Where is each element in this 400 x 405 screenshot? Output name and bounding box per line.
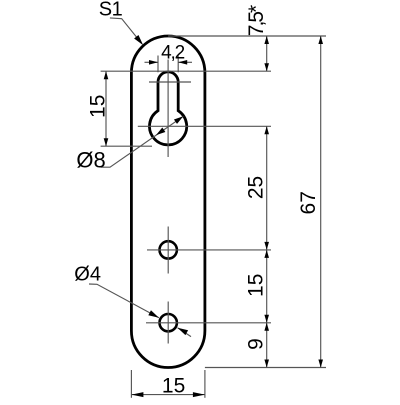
middle hole vertical centerline (167, 227, 169, 274)
arrow 4,2 left (149, 60, 158, 65)
ext line slot top (101, 70, 271, 72)
svg-text:9: 9 (245, 338, 268, 350)
hole O4 middle (160, 241, 177, 258)
arrow 25 bottom (264, 242, 269, 250)
arrow 67 top (318, 36, 323, 44)
plate outline (131, 36, 205, 368)
svg-text:S1: S1 (99, 0, 123, 20)
arrow O4 upper (148, 310, 159, 317)
dim 4,2 right tail (178, 61, 192, 63)
arrow 15L top (104, 71, 109, 79)
svg-text:15: 15 (86, 95, 109, 118)
leader S1 (110, 18, 141, 43)
leader O4 lower tail (178, 328, 192, 337)
ext line plate top (168, 35, 326, 37)
bottom hole horizontal centerline / ext (146, 322, 271, 324)
leader O8 (101, 116, 184, 167)
arrow 15L bottom (104, 138, 109, 146)
dim 4,2 left tail (145, 61, 159, 63)
dim line 7,5 (266, 36, 268, 71)
dim line 25 (266, 126, 268, 250)
arrow O8 upper (174, 116, 183, 124)
arrow 7,5 bottom (264, 63, 269, 71)
ext line O8 bottom tangent (101, 145, 152, 147)
middle hole horizontal centerline / ext (147, 249, 271, 251)
ext line slot left edge (157, 56, 159, 73)
ext line bottom right (204, 370, 206, 398)
arrow 15B right (193, 392, 205, 397)
arrow 9 bottom (264, 360, 269, 368)
arrow 7,5 top (264, 36, 269, 44)
arrow 15R top (264, 250, 269, 258)
svg-text:67: 67 (297, 191, 320, 214)
arrow O4 lower (178, 328, 189, 335)
dim line 67 (320, 36, 322, 368)
dim line 9 (266, 323, 268, 368)
arrow 67 bottom (318, 360, 323, 368)
svg-text:25: 25 (245, 176, 268, 199)
dim line 15 left (105, 71, 107, 146)
arrow 25 top (264, 126, 269, 134)
svg-text:Ø8: Ø8 (76, 147, 105, 172)
keyhole vertical centerline (167, 60, 169, 158)
dim line 15 right (266, 250, 268, 323)
bottom hole vertical centerline (167, 302, 169, 344)
svg-text:4,2: 4,2 (161, 43, 184, 64)
svg-text:Ø4: Ø4 (74, 264, 101, 286)
leader O4 upper segment (89, 284, 159, 318)
arrow 15B left (131, 392, 143, 397)
slot arc horizontal centerline (149, 81, 191, 83)
O8 horizontal centerline / ext for 25 (138, 125, 271, 127)
keyhole slot O8 (150, 72, 187, 145)
dim line 15 bottom (131, 394, 205, 396)
hole O4 bottom (160, 314, 177, 331)
arrow O8 lower (156, 127, 165, 135)
ext line bottom left (130, 370, 132, 398)
ext line slot right edge (177, 56, 179, 73)
ext line plate bottom (205, 367, 326, 369)
arrow 15R bottom (264, 315, 269, 323)
svg-text:15: 15 (162, 375, 185, 398)
arrow 9 top (264, 323, 269, 331)
arrow S1 leader (134, 35, 143, 45)
arrow 4,2 right (178, 60, 187, 65)
svg-text:15: 15 (245, 274, 268, 297)
svg-text:7,5*: 7,5* (245, 5, 268, 36)
